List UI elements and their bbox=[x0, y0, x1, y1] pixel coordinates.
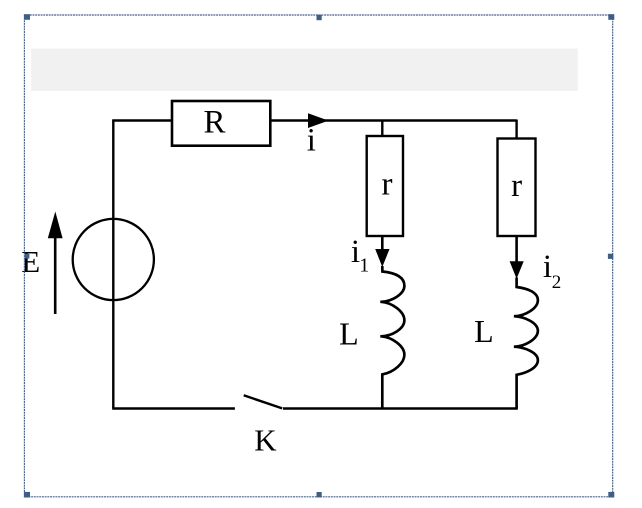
label i2 bbox=[543, 249, 561, 293]
inductor L2 coil bbox=[514, 278, 538, 409]
selection handle middle-right bbox=[608, 254, 613, 259]
resistor r1 box bbox=[367, 136, 403, 236]
selection handle bottom-right bbox=[608, 492, 614, 498]
selection handle bottom-middle bbox=[317, 492, 322, 497]
selection handle middle-left bbox=[25, 254, 29, 259]
current arrow i2 bbox=[510, 261, 524, 279]
wire: branch 2 stub below r2 bbox=[515, 236, 518, 262]
wire: branch 2 top stub bbox=[515, 120, 517, 140]
wire: left vertical branch bbox=[112, 121, 114, 409]
svg-text:R: R bbox=[203, 105, 225, 141]
selection handle top-middle bbox=[317, 15, 322, 20]
arrow: EMF direction bbox=[48, 212, 63, 315]
wire: branch 1 stub below r1 bbox=[381, 236, 384, 250]
resistor R box bbox=[172, 101, 270, 146]
wire: branch 1 top stub bbox=[381, 120, 383, 137]
gray paragraph band bbox=[31, 49, 578, 91]
voltage source E circle bbox=[73, 219, 154, 300]
svg-text:2: 2 bbox=[552, 272, 562, 293]
current arrow i bbox=[308, 113, 329, 128]
selection handle top-left bbox=[24, 14, 30, 20]
svg-text:1: 1 bbox=[359, 255, 369, 277]
svg-text:L: L bbox=[474, 313, 494, 349]
svg-text:K: K bbox=[254, 423, 277, 458]
resistor r2 box bbox=[498, 139, 536, 237]
wire: bottom right segment bbox=[283, 407, 518, 409]
current arrow i1 bbox=[375, 249, 389, 267]
selection handle bottom-left bbox=[24, 492, 30, 498]
selection handle top-right bbox=[608, 14, 614, 20]
svg-text:r: r bbox=[382, 166, 393, 202]
wire: bottom left segment bbox=[112, 407, 235, 409]
wire: top horizontal right of R bbox=[270, 119, 516, 121]
svg-text:i: i bbox=[307, 123, 316, 159]
svg-text:r: r bbox=[511, 168, 522, 204]
label i1 bbox=[351, 234, 369, 277]
svg-text:L: L bbox=[339, 316, 359, 352]
svg-text:i: i bbox=[543, 249, 552, 285]
switch K blade bbox=[244, 395, 283, 408]
wire: top horizontal left of R bbox=[112, 119, 172, 121]
inductor L1 coil bbox=[380, 266, 404, 409]
